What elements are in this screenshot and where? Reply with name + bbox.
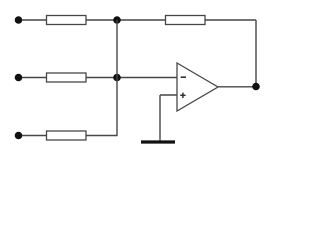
wire summing bus vertical	[116, 20, 118, 136]
input terminal node IN1	[15, 16, 23, 24]
wire vertical to ground	[159, 95, 161, 141]
wire R2 to op-amp inverting input	[86, 77, 177, 79]
wire IN2 to R2	[22, 77, 47, 79]
op-amp non-inverting input marker +	[180, 94, 185, 96]
junction node summing point	[113, 74, 121, 82]
wire R3 to summing bus	[86, 135, 117, 137]
wire IN1 to R1	[22, 19, 47, 21]
op-amp inverting input marker -	[181, 76, 186, 78]
output node OUT	[252, 83, 260, 91]
wire IN3 to R3	[22, 135, 47, 137]
wire R4 to output column	[205, 19, 256, 21]
resistor R2	[47, 73, 87, 82]
junction node at top of summing bus	[113, 16, 121, 24]
resistor R4 feedback	[166, 16, 206, 25]
wire feedback vertical down to output node	[255, 20, 257, 87]
input terminal node IN2	[15, 74, 23, 82]
resistor R3	[47, 131, 87, 140]
op-amp U1	[177, 63, 218, 111]
wire non-inverting input to ground drop	[160, 94, 177, 96]
resistor R1	[47, 16, 87, 25]
wire R1 to summing node	[86, 19, 166, 21]
wire op-amp output	[218, 86, 256, 88]
ground	[141, 140, 175, 143]
input terminal node IN3	[15, 132, 23, 140]
